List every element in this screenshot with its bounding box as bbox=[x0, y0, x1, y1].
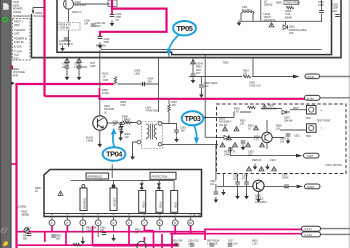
warn triangle T1 bbox=[254, 126, 259, 130]
ref label box bbox=[86, 173, 109, 179]
capacitor C613 bbox=[27, 234, 32, 236]
TP04 oval bbox=[103, 147, 126, 161]
TP03 oval bbox=[182, 111, 204, 125]
wire c607 drops bbox=[238, 174, 247, 196]
warn triangle T4 bbox=[247, 167, 252, 171]
wire transformer left bottom bbox=[133, 142, 138, 156]
SIDEBAR bbox=[0, 0, 12, 248]
triangle warn c441 bbox=[65, 58, 70, 62]
wire thick bottom rail bbox=[93, 244, 179, 247]
capacitor C604 bbox=[143, 82, 145, 87]
svg-text:10K: 10K bbox=[276, 128, 281, 131]
svg-text:2KV: 2KV bbox=[148, 81, 153, 84]
wire v-data rail2 bbox=[252, 76, 293, 78]
paperclip icon bbox=[0, 226, 7, 233]
resistor bottom bbox=[73, 243, 81, 246]
svg-text:R628 1K: R628 1K bbox=[252, 159, 262, 162]
oval V-DATA bbox=[305, 74, 320, 79]
svg-text:POWER B: POWER B bbox=[14, 37, 27, 41]
svg-text:RESET: RESET bbox=[113, 197, 117, 206]
svg-text:103: 103 bbox=[62, 66, 67, 69]
wire L601 left drop bbox=[240, 13, 242, 22]
capacitor C617 bbox=[190, 244, 195, 246]
wire left L hook bbox=[33, 8, 45, 11]
TP03 pointer bbox=[194, 126, 197, 139]
svg-text:H-9.5V: H-9.5V bbox=[305, 234, 313, 237]
svg-text:120: 120 bbox=[125, 136, 130, 139]
resistor R612 vertical bbox=[114, 77, 117, 85]
wire c610 drop bbox=[321, 0, 323, 22]
svg-text:BP(1061): BP(1061) bbox=[96, 45, 106, 48]
svg-text:PROTECTION: PROTECTION bbox=[152, 175, 168, 178]
svg-text:1000P: 1000P bbox=[125, 122, 132, 125]
TP05 oval bbox=[173, 21, 196, 35]
wire reset gnd bbox=[111, 165, 113, 179]
ground C459 bbox=[191, 77, 196, 83]
wire stub left edge upper bbox=[12, 66, 14, 70]
oval H-5.1V bbox=[302, 226, 321, 231]
svg-text:1KV: 1KV bbox=[204, 85, 209, 88]
resistor R607 vertical bbox=[168, 104, 171, 112]
wire q602 gnd bbox=[258, 191, 260, 199]
capacitor C603 bbox=[118, 127, 123, 129]
svg-text:1N4148: 1N4148 bbox=[284, 120, 293, 123]
svg-text:250V: 250V bbox=[95, 25, 101, 28]
wire r620 bbox=[240, 109, 290, 113]
svg-text:TLP: TLP bbox=[14, 53, 19, 57]
wire q100 drop bbox=[68, 9, 70, 47]
capacitor C619b bbox=[228, 244, 233, 246]
wire bottom rail left part bbox=[17, 244, 93, 246]
RESET terminal bbox=[112, 184, 116, 188]
svg-text:104: 104 bbox=[181, 130, 186, 133]
capacitor C104 bbox=[110, 15, 115, 17]
svg-text:THR RST: THR RST bbox=[14, 28, 26, 32]
pin function marks bbox=[51, 214, 192, 216]
wire drop x205 bbox=[204, 232, 206, 240]
capacitor C616 bbox=[175, 244, 180, 246]
capacitor C608 bbox=[244, 182, 249, 184]
svg-text:L604: L604 bbox=[135, 73, 141, 76]
wire h-det rail bbox=[217, 185, 296, 187]
wire transistor emitter bbox=[99, 130, 101, 144]
wire test point rail 2 bbox=[280, 129, 307, 131]
triangle warn d441 bbox=[191, 60, 196, 64]
svg-text:4.7K: 4.7K bbox=[254, 139, 259, 142]
svg-text:2W(M): 2W(M) bbox=[285, 16, 292, 19]
wire bottom bus B bbox=[170, 233, 302, 235]
resistor R604 bbox=[286, 6, 294, 9]
svg-text:82P: 82P bbox=[100, 230, 105, 233]
wire heater rail bbox=[17, 84, 114, 248]
svg-text:T-10 P: T-10 P bbox=[14, 50, 22, 54]
svg-text:ETC: ETC bbox=[14, 57, 19, 61]
wire v-data rail bbox=[189, 76, 242, 78]
svg-text:1/4W: 1/4W bbox=[172, 243, 178, 246]
wire top box mid rail bbox=[101, 49, 322, 51]
svg-text:1.6V: 1.6V bbox=[188, 243, 193, 246]
svg-text:C623: C623 bbox=[270, 159, 276, 162]
svg-text:1/4W: 1/4W bbox=[224, 154, 230, 157]
BU1 box bbox=[171, 191, 178, 213]
transformer left winding bbox=[147, 125, 149, 138]
wire Q?? drop bbox=[143, 237, 145, 242]
inner top box bbox=[57, 0, 332, 55]
resistor R608 bbox=[123, 121, 131, 124]
wire riser above transistor bbox=[99, 88, 101, 96]
x-ray protection dashed box bbox=[217, 104, 347, 174]
capacitor C605 bbox=[199, 85, 204, 87]
svg-text:680(M): 680(M) bbox=[22, 214, 30, 217]
zener box ZD601 bbox=[284, 1, 299, 5]
svg-text:CONN: CONN bbox=[13, 10, 21, 14]
capacitor C363 bbox=[335, 15, 340, 17]
capacitor C441 bbox=[65, 66, 70, 68]
wire q603 bbox=[217, 120, 284, 149]
wire transformer right bottom bbox=[162, 145, 216, 191]
IC pins 1-10 bbox=[49, 220, 193, 226]
capacitor C102 bbox=[91, 24, 96, 26]
arrow v-data bbox=[293, 75, 300, 79]
connector block top bbox=[108, 0, 117, 7]
svg-text:115V B+: 115V B+ bbox=[14, 40, 25, 44]
capacitor C612 bbox=[51, 235, 56, 237]
wire c611 drop bbox=[192, 58, 194, 73]
wire q100 collector bbox=[74, 3, 111, 5]
ground C606 bbox=[119, 128, 124, 134]
riser wires BU bbox=[100, 179, 174, 191]
wire v-rat feed bbox=[230, 147, 296, 156]
svg-text:R627: R627 bbox=[293, 107, 299, 110]
ground C440 bbox=[214, 197, 219, 203]
svg-text:10: 10 bbox=[189, 221, 193, 225]
wire test point rail 1 bbox=[290, 109, 307, 111]
wire pin3 drop bbox=[82, 226, 84, 241]
wire q601 drop bbox=[260, 0, 262, 21]
ground C605 bbox=[199, 92, 204, 98]
wire horizontal to pincushion bbox=[45, 96, 305, 99]
transistor Q605 bottom bbox=[137, 241, 146, 248]
svg-text:TP03: TP03 bbox=[184, 114, 200, 123]
svg-text:GND: GND bbox=[90, 65, 96, 68]
svg-text:R603: R603 bbox=[276, 1, 282, 4]
oval H-9.5V bbox=[302, 232, 321, 237]
wire pin10 drop bbox=[190, 226, 192, 234]
capacitor C440 bbox=[214, 192, 219, 194]
svg-text:(TO-92): (TO-92) bbox=[219, 124, 228, 127]
svg-text:X-RAY OPTION: X-RAY OPTION bbox=[325, 164, 342, 167]
transformer right winding bbox=[154, 125, 156, 138]
wire v-data continuation bbox=[320, 76, 350, 78]
svg-text:4.7K: 4.7K bbox=[234, 111, 239, 114]
svg-text:471: 471 bbox=[242, 178, 247, 181]
sidebar panel bbox=[0, 0, 12, 248]
warn triangle T5 bbox=[259, 167, 264, 171]
warn triangle T10 bbox=[233, 143, 238, 147]
ground T601 bbox=[130, 154, 135, 160]
RESET box bbox=[110, 188, 117, 211]
ground IC top bbox=[110, 156, 115, 162]
ground C607 bbox=[235, 193, 240, 199]
svg-text:1/4W: 1/4W bbox=[103, 79, 109, 82]
transformer winding stubs bbox=[147, 124, 157, 140]
arrow H-DET bbox=[297, 185, 304, 189]
wire zd601 drop bbox=[284, 21, 286, 25]
ground small B bbox=[265, 164, 270, 170]
svg-text:2N3012: 2N3012 bbox=[264, 4, 273, 7]
wire drop x172 bbox=[171, 234, 173, 248]
svg-text:1/2W (M): 1/2W (M) bbox=[60, 27, 70, 30]
ground C608 bbox=[244, 193, 249, 199]
capacitor C619 bbox=[286, 134, 291, 136]
svg-text:DISABLE: DISABLE bbox=[83, 197, 87, 209]
ground C441 bbox=[65, 74, 70, 80]
svg-text:A06: A06 bbox=[289, 32, 294, 35]
svg-text:FRQ: FRQ bbox=[14, 23, 20, 27]
resistor R618 bbox=[210, 244, 215, 246]
TP05 pointer bbox=[169, 34, 181, 51]
diode D606 bbox=[282, 110, 286, 114]
triangle warn c440 bbox=[77, 58, 82, 62]
pin stubs bbox=[52, 217, 191, 220]
svg-text:2KV: 2KV bbox=[333, 10, 338, 13]
wire pin8 drop bbox=[159, 226, 161, 230]
oval V-RAT bbox=[304, 153, 320, 158]
svg-text:1K: 1K bbox=[248, 128, 251, 131]
ground C440b bbox=[77, 74, 82, 80]
protection label box bbox=[150, 172, 176, 179]
wire drop x92.5 bbox=[92, 226, 94, 245]
capacitor C618 bbox=[241, 141, 246, 143]
diode D601 bbox=[283, 25, 288, 29]
transformer T601 core dashed box bbox=[142, 122, 163, 149]
ground C103 bbox=[98, 42, 103, 48]
document icon bbox=[3, 3, 8, 9]
left label column dashed box bbox=[13, 19, 31, 61]
triangle warn R620 bbox=[262, 105, 267, 109]
green status icon bbox=[2, 17, 8, 23]
svg-text:22K: 22K bbox=[172, 104, 177, 107]
wire pin9 drop bbox=[174, 226, 176, 234]
wire main B+ vertical bbox=[43, 0, 45, 96]
transformer core lines bbox=[150, 124, 152, 140]
svg-text:10K: 10K bbox=[243, 73, 248, 76]
wire b-15v continuation bbox=[320, 97, 350, 99]
TESTPOINT CALLOUTS bbox=[103, 21, 204, 161]
svg-text:H-5.1V: H-5.1V bbox=[305, 228, 313, 231]
wire stub C104 bbox=[111, 9, 113, 14]
ground C618 bbox=[241, 144, 246, 150]
ground Q602 bbox=[256, 196, 261, 202]
svg-text:R102 2.2: R102 2.2 bbox=[72, 11, 82, 14]
svg-text:104: 104 bbox=[210, 183, 215, 186]
outer section border bbox=[32, 0, 342, 58]
wire transistor column bbox=[99, 99, 101, 116]
oval H-DET bbox=[305, 184, 321, 189]
svg-text:1K(M): 1K(M) bbox=[102, 92, 109, 95]
pen icon bbox=[3, 241, 9, 246]
wire transformer left top bbox=[121, 123, 138, 137]
transistor Q603 bbox=[262, 132, 272, 142]
svg-text:UHT: UHT bbox=[14, 32, 20, 36]
svg-text:2SC5344: 2SC5344 bbox=[75, 3, 87, 7]
svg-text:1.2K: 1.2K bbox=[252, 243, 257, 246]
wire pin5 drop bbox=[113, 226, 115, 238]
transistor Q602 bbox=[253, 180, 264, 191]
svg-text:V-DATA: V-DATA bbox=[306, 76, 315, 79]
svg-text:T602: T602 bbox=[306, 135, 312, 138]
wire y58 long rail bbox=[32, 57, 342, 59]
capacitor C103 bbox=[98, 37, 103, 39]
wire pin1 drop bbox=[51, 226, 53, 232]
svg-text:100P: 100P bbox=[318, 4, 324, 7]
svg-text:V-RAT: V-RAT bbox=[307, 155, 314, 158]
svg-text:C622: C622 bbox=[294, 135, 300, 138]
wire into dashed box bbox=[205, 55, 234, 138]
wire L601 rail bbox=[241, 20, 322, 22]
warn triangle T2 bbox=[227, 136, 232, 140]
svg-text:0.022 6.3V: 0.022 6.3V bbox=[249, 85, 261, 88]
svg-text:T-PW(YDA): T-PW(YDA) bbox=[146, 110, 159, 113]
IC box inner bottom line bbox=[44, 213, 202, 215]
warn triangle T9 bbox=[220, 143, 225, 147]
svg-text:ZD601 RD5.6: ZD601 RD5.6 bbox=[286, 2, 301, 5]
resistor block R106 dashed bbox=[58, 23, 80, 31]
ground C603 bbox=[118, 135, 123, 141]
svg-text:TEST POINT: TEST POINT bbox=[317, 120, 332, 123]
svg-text:104: 104 bbox=[113, 124, 118, 127]
capacitor C607 bbox=[235, 182, 240, 184]
svg-text:KSC2383-Y: KSC2383-Y bbox=[255, 201, 268, 204]
svg-text:REFERENCE: REFERENCE bbox=[88, 176, 103, 179]
ground small A bbox=[253, 164, 258, 170]
svg-text:103: 103 bbox=[280, 141, 285, 144]
svg-text:680: 680 bbox=[23, 238, 28, 241]
svg-text:SCREEN FHR: SCREEN FHR bbox=[13, 14, 31, 18]
ground c616 bbox=[221, 189, 226, 195]
svg-text:36K: 36K bbox=[56, 238, 61, 241]
warn triangle T6 bbox=[272, 167, 277, 171]
wire riser r614 bbox=[252, 58, 254, 77]
wire oval h95 continuation bbox=[321, 233, 350, 235]
svg-text:104: 104 bbox=[84, 23, 89, 26]
wire pin7 drop bbox=[144, 226, 153, 231]
svg-text:2.2K: 2.2K bbox=[122, 119, 127, 122]
svg-text:1.5KV(MPP): 1.5KV(MPP) bbox=[74, 66, 87, 69]
wire pin4 drop bbox=[97, 226, 99, 237]
bowtie BU3 bbox=[140, 184, 143, 189]
ground Q100 bbox=[60, 45, 65, 51]
triangle warn L602 bbox=[269, 23, 274, 27]
page right edge bbox=[348, 0, 350, 248]
svg-text:TP04: TP04 bbox=[106, 150, 123, 159]
transistor Q604 bbox=[93, 116, 107, 130]
TP04 pointer bbox=[113, 133, 115, 148]
svg-text:103 1.6V: 103 1.6V bbox=[228, 243, 238, 246]
svg-text:B/U3: B/U3 bbox=[141, 201, 145, 207]
svg-text:XFR: XFR bbox=[13, 73, 18, 77]
svg-text:1 2W(M): 1 2W(M) bbox=[33, 12, 42, 15]
svg-text:PP: PP bbox=[116, 19, 120, 22]
ground L601 bbox=[237, 20, 242, 26]
svg-text:100: 100 bbox=[25, 230, 30, 233]
svg-text:TP05: TP05 bbox=[176, 24, 192, 33]
inductor L604 bbox=[284, 185, 289, 188]
svg-text:1K: 1K bbox=[35, 190, 38, 193]
svg-text:2KV B(1061): 2KV B(1061) bbox=[59, 43, 73, 46]
wire drop x153.5 bbox=[153, 231, 155, 248]
warn triangle T7 bbox=[223, 127, 228, 131]
test point circle 1 bbox=[307, 106, 317, 115]
BU2 box bbox=[156, 191, 163, 213]
wire pin2 drop bbox=[66, 226, 68, 232]
warn triangle T11 bbox=[246, 143, 251, 147]
IC601 main IC box bbox=[44, 170, 202, 217]
svg-text:1R0M: 1R0M bbox=[282, 177, 288, 180]
svg-text:PROT 1: PROT 1 bbox=[14, 20, 24, 24]
arrow V-RAT bbox=[296, 154, 303, 158]
wire pin6 drop bbox=[128, 226, 130, 245]
wire B+ loop in top box bbox=[100, 0, 167, 36]
wire drop x64 bbox=[65, 232, 67, 246]
wire c605 drop bbox=[200, 77, 202, 95]
wire hot-gnd column bbox=[99, 50, 101, 88]
capacitor c615 bbox=[102, 233, 107, 235]
ground pin3 bbox=[81, 238, 86, 244]
svg-text:D-10A: D-10A bbox=[14, 45, 22, 49]
svg-text:B/U2: B/U2 bbox=[159, 201, 163, 207]
capacitor C621 bbox=[228, 148, 233, 150]
svg-text:10K: 10K bbox=[240, 123, 245, 126]
svg-text:1KV: 1KV bbox=[196, 72, 201, 75]
DISABLE box bbox=[80, 188, 87, 211]
svg-text:1N4148: 1N4148 bbox=[268, 108, 277, 111]
wire d604 branch bbox=[118, 83, 159, 85]
svg-text:R615: R615 bbox=[223, 62, 229, 65]
wire vr to bus bbox=[44, 232, 46, 242]
transformer terminal circles bbox=[137, 121, 141, 125]
svg-text:Blue/Blue: Blue/Blue bbox=[242, 9, 253, 12]
capacitor C105 bbox=[64, 38, 69, 40]
capacitor C610 bbox=[319, 11, 324, 13]
svg-text:1.5KM: 1.5KM bbox=[86, 140, 93, 143]
variable resistor VR bbox=[24, 228, 29, 233]
svg-text:A40-0013A: A40-0013A bbox=[264, 19, 276, 22]
transistor Q100 top bbox=[64, 0, 74, 9]
resistor R614 bbox=[243, 75, 251, 78]
ground pin5 bbox=[111, 235, 116, 241]
svg-text:3.3V(M): 3.3V(M) bbox=[18, 206, 27, 209]
dashed box diode D605 bbox=[224, 135, 229, 139]
wire transformer right top bbox=[162, 99, 177, 136]
capacitor C606 bbox=[119, 125, 124, 127]
ground C619 bbox=[286, 138, 291, 144]
wire c606 bbox=[121, 123, 123, 129]
wire stub to left edge bbox=[12, 163, 17, 165]
junction wedge bbox=[12, 82, 15, 85]
svg-text:1K: 1K bbox=[135, 232, 138, 235]
svg-text:B-15V: B-15V bbox=[307, 97, 314, 100]
wire c441 stub bbox=[67, 58, 79, 75]
oval B-15V bbox=[305, 95, 321, 100]
svg-text:1.5K 1.5K: 1.5K 1.5K bbox=[207, 243, 218, 246]
inductor L601 bbox=[241, 12, 254, 22]
svg-text:(Y): (Y) bbox=[104, 111, 107, 114]
test point circle 2 bbox=[307, 124, 317, 133]
capacitor C602 bbox=[174, 130, 179, 132]
svg-text:5.6K: 5.6K bbox=[121, 104, 126, 107]
wire c604 link bbox=[158, 58, 160, 112]
